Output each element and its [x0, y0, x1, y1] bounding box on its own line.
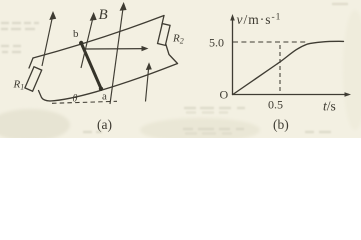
svg-text:(a): (a) [97, 117, 112, 132]
svg-text:B: B [99, 7, 108, 23]
svg-text:(b): (b) [273, 117, 289, 132]
svg-text:b: b [73, 28, 79, 40]
svg-text:t/s: t/s [323, 99, 336, 114]
svg-text:a: a [102, 91, 107, 103]
svg-text:0.5: 0.5 [268, 98, 283, 112]
svg-text:O: O [220, 88, 229, 102]
svg-text:5.0: 5.0 [209, 36, 224, 50]
svg-text:θ: θ [73, 94, 78, 105]
